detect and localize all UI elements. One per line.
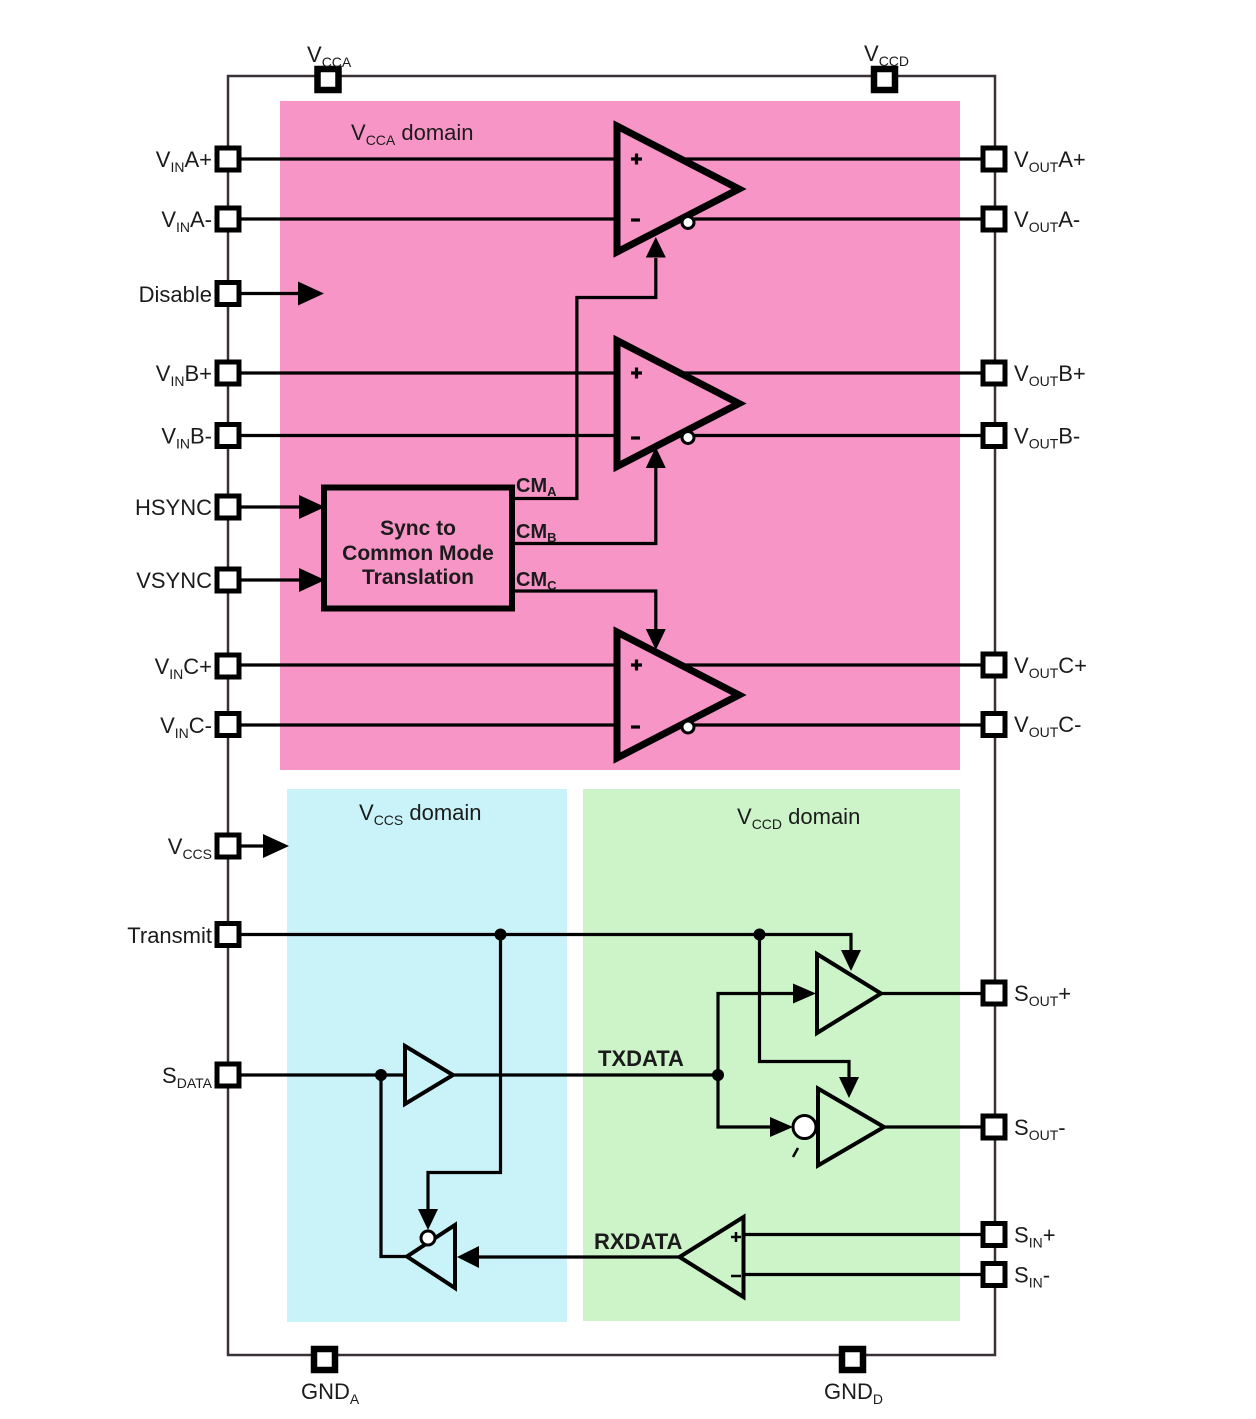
svg-text:VINA+: VINA+ [156,147,212,175]
svg-text:VCCS: VCCS [168,834,212,862]
svg-text:SOUT+: SOUT+ [1014,981,1071,1009]
svg-text:Sync to: Sync to [380,517,456,540]
svg-text:Transmit: Transmit [127,923,212,948]
svg-text:VINB-: VINB- [161,424,212,452]
svg-text:TXDATA: TXDATA [598,1046,684,1071]
svg-text:VINC-: VINC- [160,713,212,741]
svg-text:VOUTB-: VOUTB- [1014,424,1080,452]
svg-text:Disable: Disable [139,282,212,307]
svg-text:VOUTA+: VOUTA+ [1014,147,1086,175]
svg-text:VINB+: VINB+ [156,361,212,389]
svg-text:RXDATA: RXDATA [594,1229,683,1254]
svg-text:VINC+: VINC+ [155,654,212,682]
svg-text:GNDA: GNDA [301,1379,360,1407]
svg-text:VOUTA-: VOUTA- [1014,207,1080,235]
svg-text:VCCA: VCCA [307,42,352,70]
svg-text:SOUT-: SOUT- [1014,1115,1066,1143]
svg-text:VINA-: VINA- [161,207,212,235]
svg-text:SIN-: SIN- [1014,1263,1050,1291]
svg-text:Common Mode: Common Mode [342,542,494,565]
svg-text:VOUTC+: VOUTC+ [1014,653,1087,681]
svg-text:VCCD: VCCD [864,41,909,69]
svg-text:VOUTC-: VOUTC- [1014,712,1081,740]
svg-text:SIN+: SIN+ [1014,1223,1056,1251]
svg-text:Translation: Translation [362,566,474,589]
svg-text:VOUTB+: VOUTB+ [1014,361,1086,389]
svg-text:SDATA: SDATA [162,1063,213,1091]
svg-text:VSYNC: VSYNC [136,568,212,593]
svg-text:HSYNC: HSYNC [135,495,212,520]
svg-text:GNDD: GNDD [824,1379,883,1407]
